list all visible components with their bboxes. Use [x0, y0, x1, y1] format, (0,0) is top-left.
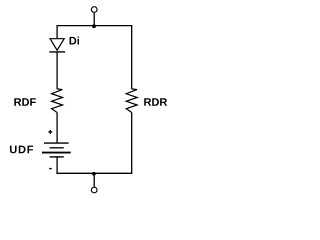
diode Di (anode triangle): [50, 39, 64, 51]
plus sign: [48, 130, 52, 134]
label RDR: [144, 98, 167, 106]
bottom terminal: [91, 187, 97, 193]
diode Di cathode bar: [49, 51, 65, 53]
wire: top terminal stub: [93, 13, 95, 26]
top terminal: [91, 7, 97, 13]
battery UDF plate 3 (long): [42, 152, 71, 154]
label UDF: [10, 146, 33, 154]
label RDF: [14, 98, 35, 106]
label Di: [70, 37, 79, 45]
wire: left branch RDF to battery: [56, 113, 58, 144]
battery UDF plate 1 (long): [44, 142, 69, 144]
wire: bottom horizontal: [56, 172, 132, 174]
junction dot (bottom node): [92, 172, 96, 176]
wire: left branch diode to RDF: [56, 52, 58, 89]
resistor RDF: [52, 89, 63, 113]
battery UDF plate 4 (short): [50, 156, 64, 158]
minus sign: [49, 168, 52, 170]
junction dot (top node): [92, 24, 96, 28]
resistor RDR: [126, 89, 137, 113]
wire: top horizontal: [56, 25, 132, 27]
wire: right branch below RDR: [131, 113, 133, 174]
battery UDF plate 2 (short): [50, 147, 64, 149]
wire: right branch above RDR: [131, 26, 133, 90]
wire: left branch above diode: [56, 26, 58, 39]
wire: bottom terminal stub: [93, 173, 95, 187]
wire: battery to bottom wire: [56, 157, 58, 173]
